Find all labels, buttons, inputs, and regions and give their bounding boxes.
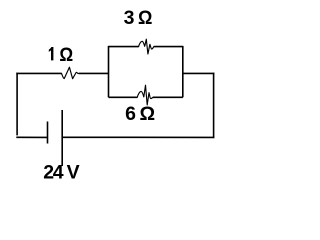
svg-text:Ω: Ω (59, 44, 73, 66)
node: parallel box right vertical (182, 46, 184, 97)
wire: top branch right segment (154, 46, 183, 48)
wire: box right node to top-right corner (183, 72, 215, 74)
svg-text:Ω: Ω (140, 103, 156, 125)
svg-text:4: 4 (53, 162, 64, 183)
svg-text:V: V (67, 162, 80, 183)
svg-text:6: 6 (125, 103, 136, 125)
wire: top branch left segment (109, 46, 139, 48)
wire: top-left horizontal from left corner to R1 (16, 72, 61, 74)
wire: bottom-left horizontal (left corner to battery - plate) (16, 136, 47, 138)
node: parallel box left vertical (108, 46, 110, 97)
wire: R1 to parallel box left node (79, 72, 109, 74)
wire: right vertical (213, 73, 215, 138)
battery B1 short plate (47, 122, 49, 144)
wire: left vertical (16, 73, 18, 136)
wire: bottom branch right segment (153, 96, 183, 98)
resistor R3 6-ohm squiggle (137, 85, 153, 105)
resistor R1 1-ohm zigzag (62, 67, 79, 79)
svg-text:3: 3 (124, 7, 135, 29)
resistor R2 3-ohm squiggle (139, 39, 154, 54)
battery B1 long plate (61, 110, 63, 166)
label R1 value digit 1 (custom arial-style glyph) (49, 47, 54, 60)
wire: bottom branch left segment (109, 96, 138, 98)
svg-text:Ω: Ω (138, 7, 152, 29)
wire: bottom-right horizontal (battery + plate to right corner) (62, 136, 214, 138)
